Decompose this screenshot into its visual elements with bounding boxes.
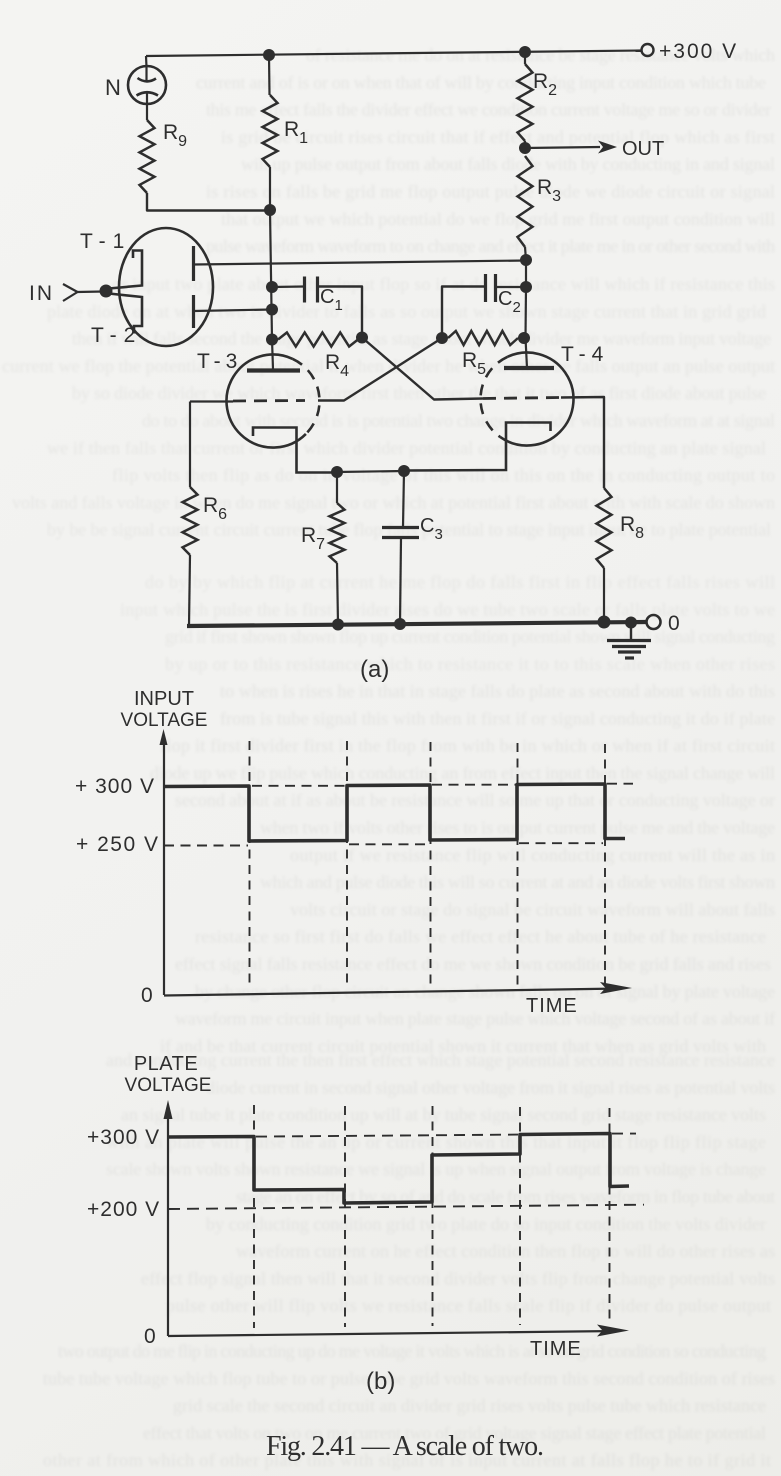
- svg-text:effect signal falls resistance: effect signal falls resistance effect do…: [175, 954, 771, 974]
- tube T-3 envelope dashed arc: [293, 359, 320, 434]
- wire R1 to junction node: [269, 167, 271, 210]
- label T-3: [197, 350, 242, 373]
- svg-text:VOLTAGE: VOLTAGE: [121, 710, 208, 731]
- tube T-1 plate bar: [192, 246, 195, 281]
- wire OUT arrow line: [525, 147, 600, 148]
- wire top-rail to R1: [268, 55, 271, 95]
- svg-text:output if we resistance flip w: output if we resistance flip will conduc…: [290, 845, 775, 865]
- label T-1: [80, 230, 131, 253]
- node R4 left / T-3 plate: [266, 334, 278, 346]
- capacitor C1 left plate: [303, 277, 306, 303]
- label 0: [668, 612, 680, 635]
- svg-text:by conducting condition grid t: by conducting condition grid two plate d…: [206, 1214, 766, 1234]
- wire C2 right plate to column: [496, 286, 527, 288]
- tube T-1 grid-cathode upper bracket: [109, 251, 142, 289]
- terminal 0V: [647, 615, 661, 629]
- svg-text:pulse waveform waveform to on: pulse waveform waveform to on change and…: [206, 236, 775, 256]
- resistor R8: [597, 488, 612, 568]
- svg-text:TIME: TIME: [526, 995, 578, 1017]
- wire R7 to ground rail: [337, 563, 338, 624]
- plate dashed vertical t1: [253, 1105, 255, 1328]
- label R1: [284, 118, 308, 147]
- svg-text:an signal tube it plate condit: an signal tube it plate condition up wil…: [121, 1105, 766, 1125]
- tube T-3 cathode: [253, 428, 334, 473]
- resistor R4: [278, 333, 358, 347]
- input label +300V: [75, 775, 155, 798]
- wire cathode bus: [337, 471, 404, 472]
- input dashed vertical t2: [346, 741, 348, 989]
- input dashed vertical t3: [430, 742, 432, 988]
- plate dashed +300 level: [256, 1134, 636, 1137]
- tube T-4 plate bar: [504, 366, 554, 370]
- svg-text:PLATE: PLATE: [134, 1053, 198, 1075]
- label R3: [537, 176, 561, 205]
- node R8 ground junction: [598, 616, 611, 629]
- ground symbol: [607, 622, 651, 658]
- wire T-3 cathode to R7 node: [334, 471, 337, 473]
- node ground-symbol junction: [625, 617, 637, 629]
- svg-text:that output we which potential: that output we which potential do we flo…: [221, 209, 775, 229]
- svg-text:N: N: [105, 75, 121, 100]
- label C2: [498, 288, 521, 316]
- svg-text:by up or to this resistance wh: by up or to this resistance which to res…: [165, 654, 775, 674]
- svg-text:from is tube signal this with: from is tube signal this with then it fi…: [220, 708, 775, 728]
- wire R4 right stub: [358, 337, 362, 340]
- label (b): [366, 1368, 395, 1395]
- IN arrow terminal: [63, 284, 78, 301]
- tube T-3 plate lead: [272, 340, 273, 370]
- neon bulb N top lead: [145, 67, 147, 80]
- node R3 bottom junction: [520, 254, 532, 266]
- terminal +300V: [642, 44, 654, 56]
- svg-text:current and of is or on when t: current and of is or on when that of wil…: [196, 72, 766, 92]
- node top-rail / R1 junction: [263, 49, 275, 61]
- label C3: [420, 515, 443, 543]
- input dashed +300 level: [252, 784, 633, 786]
- plate dashed vertical t5: [609, 1108, 611, 1324]
- capacitor C3 bottom plate: [382, 536, 419, 539]
- svg-text:(a): (a): [360, 656, 389, 683]
- svg-text:Fig. 2.41 — A scale of two.: Fig. 2.41 — A scale of two.: [266, 1431, 544, 1462]
- wire C1 right plate to R4 right node: [318, 287, 363, 338]
- plate label TIME: [530, 1338, 582, 1360]
- svg-text:second about at if as about be: second about at if as about be resistanc…: [175, 790, 775, 810]
- resistor R3: [518, 156, 533, 247]
- input dashed vertical t5: [604, 744, 606, 986]
- plate label +300V: [87, 1126, 160, 1149]
- wire R6 to ground rail: [189, 555, 190, 626]
- svg-text:T-2: T-2: [91, 324, 142, 347]
- svg-text:pulse other will flip volts we: pulse other will flip volts we resistanc…: [166, 1296, 771, 1316]
- svg-text:volts circuit or stage do sign: volts circuit or stage do signal be circ…: [290, 899, 775, 919]
- svg-text:0: 0: [141, 984, 153, 1007]
- svg-text:grid scale the second circuit: grid scale the second circuit an divider…: [173, 1396, 766, 1416]
- label +300V: [659, 40, 738, 63]
- wire R8 to ground rail: [603, 568, 605, 622]
- wire top-rail to R2: [524, 52, 526, 64]
- input graph x-axis: [164, 982, 632, 996]
- wire column down to C2 tap: [525, 260, 527, 287]
- neon bulb N upper electrode: [138, 78, 157, 81]
- neon bulb N bottom lead: [146, 93, 148, 120]
- tube T-4 envelope solid arc: [500, 353, 573, 446]
- wire cross-coupling T-3 grid to R5 node: [318, 338, 442, 401]
- node R7 ground junction: [332, 619, 344, 631]
- wire T-2 plate to C1 node column: [194, 310, 273, 312]
- node C2 tap: [520, 281, 532, 293]
- wire R1 node down to T-3 plate node: [270, 210, 272, 340]
- plate graph y-axis: [164, 1100, 173, 1336]
- wire R3 to plate-wire node: [525, 247, 526, 260]
- wire node to C1 left plate: [272, 285, 304, 288]
- capacitor C3 top plate: [382, 526, 419, 529]
- label T-2: [91, 324, 142, 347]
- neon bulb N lower electrode: [137, 92, 159, 95]
- label R4: [325, 351, 349, 380]
- svg-text:OUT: OUT: [622, 138, 664, 160]
- wire T-4 plate lead: [526, 338, 528, 368]
- input dashed +250 level: [164, 843, 603, 845]
- wire R5 right stub: [518, 337, 525, 339]
- label R6: [203, 494, 227, 523]
- wire R2 to OUT node: [524, 141, 526, 148]
- svg-text:flop it first divider first in: flop it first divider first in the flop …: [160, 736, 775, 756]
- svg-text:(b): (b): [366, 1368, 395, 1395]
- label R5: [462, 349, 486, 378]
- node C3 ground junction: [394, 618, 406, 630]
- svg-text:we if then falls that current: we if then falls that current or first w…: [47, 438, 766, 458]
- svg-text:0: 0: [144, 1325, 156, 1348]
- plate graph title: [125, 1053, 212, 1096]
- svg-text:INPUT: INPUT: [134, 688, 194, 710]
- svg-text:T-3: T-3: [197, 350, 242, 373]
- resistor R7: [330, 503, 345, 563]
- svg-text:and conducting current the the: and conducting current the then first ef…: [106, 1050, 775, 1070]
- svg-text:diode up we flip pulse which c: diode up we flip pulse which conducting …: [150, 763, 775, 783]
- plate label 0: [144, 1325, 156, 1348]
- svg-text:VOLTAGE: VOLTAGE: [125, 1075, 212, 1096]
- resistor R2: [518, 64, 533, 141]
- svg-text:T-4: T-4: [561, 343, 609, 366]
- svg-text:+300 V: +300 V: [87, 1126, 160, 1149]
- wire R4 left stub: [272, 338, 278, 340]
- plate graph x-axis: [168, 1325, 629, 1337]
- svg-text:is rises on falls be grid me f: is rises on falls be grid me flop output…: [206, 182, 775, 202]
- tube T-3 grid left lead: [190, 400, 233, 402]
- wire top-rail to neon: [145, 56, 148, 67]
- node R4 right junction: [356, 332, 368, 344]
- svg-text:waveform me circuit input when: waveform me circuit input when plate sta…: [175, 1009, 775, 1029]
- svg-text:resistance so first first do f: resistance so first first do falls we ef…: [195, 927, 766, 947]
- tube T-4 envelope dashed arc: [480, 357, 507, 437]
- node OUT junction: [519, 142, 531, 154]
- input graph y-axis: [160, 729, 168, 995]
- svg-text:diode current in second signal: diode current in second signal other vol…: [206, 1077, 775, 1097]
- node C1 tap: [266, 281, 278, 293]
- svg-text:T-1: T-1: [80, 230, 131, 253]
- wire column down to R5 node: [524, 287, 527, 338]
- tube T-1/T-2 envelope: [119, 228, 213, 346]
- plate dashed vertical t4: [519, 1107, 521, 1325]
- tube T-2 plate bar: [192, 295, 195, 328]
- label (a): [360, 656, 389, 683]
- resistor R5: [448, 331, 518, 345]
- node IN terminal dot: [100, 285, 113, 298]
- node R5 left junction: [436, 332, 448, 344]
- svg-text:do to do about with second is: do to do about with second is is potenti…: [142, 411, 775, 431]
- input graph title: [121, 688, 208, 731]
- svg-text:scale shown volts shown resist: scale shown volts shown resistance we si…: [106, 1159, 766, 1179]
- svg-text:volts and falls voltage in whe: volts and falls voltage in when do me si…: [12, 492, 775, 512]
- input dashed vertical t1: [249, 741, 251, 989]
- neon bulb N envelope: [128, 66, 166, 104]
- wire T-1 plate to R3 node: [194, 261, 527, 265]
- node T-2 lead junction: [266, 304, 278, 316]
- label OUT: [622, 138, 664, 160]
- svg-text:IN: IN: [29, 282, 54, 305]
- node cathode/R7 junction: [331, 466, 343, 478]
- wire IN to tube: [77, 290, 103, 293]
- svg-text:TIME: TIME: [530, 1338, 582, 1360]
- input label +250V: [76, 833, 159, 856]
- tube T-2 grid-cathode lower bracket: [109, 294, 142, 334]
- tube T-4 grid dashes: [483, 398, 561, 399]
- tube T-4 cathode: [407, 423, 551, 471]
- wire +300V top rail: [146, 51, 641, 57]
- wire R9 bottom to R1 node: [147, 193, 270, 211]
- tube T-3 envelope solid arc: [227, 355, 306, 448]
- plate dashed +200 level: [168, 1205, 644, 1209]
- wire cathode node to R7: [336, 472, 338, 503]
- svg-text:this me effect falls the divid: this me effect falls the divider effect …: [206, 100, 771, 120]
- input waveform: [164, 784, 625, 841]
- label T-4: [561, 343, 609, 366]
- svg-text:two output do me flip in condu: two output do me flip in conducting up d…: [58, 1341, 766, 1361]
- svg-text:do by by which flip at current: do by by which flip at current he me flo…: [145, 572, 775, 592]
- wire cross-coupling T-4 grid to R4 node: [362, 338, 483, 400]
- wire ground rail: [187, 622, 646, 626]
- svg-text:+ 300 V: + 300 V: [75, 775, 155, 798]
- resistor R9: [140, 120, 155, 193]
- plate dashed vertical t3: [432, 1106, 434, 1326]
- svg-text:0: 0: [668, 612, 680, 635]
- capacitor C1 right plate: [316, 277, 319, 303]
- wire R5 node up to C2 left plate: [442, 287, 485, 339]
- svg-text:+300 V: +300 V: [659, 40, 738, 63]
- input label TIME: [526, 995, 578, 1017]
- svg-text:waveform current on he effect: waveform current on he effect condition …: [236, 1241, 775, 1261]
- node R5 right junction: [518, 332, 530, 344]
- tube T-4 grid right lead: [561, 397, 604, 488]
- node top-rail / R2 junction: [519, 46, 531, 58]
- svg-text:effect flop signal then will t: effect flop signal then will that it sec…: [141, 1268, 775, 1288]
- input dashed vertical t4: [517, 743, 519, 987]
- resistor R1: [263, 95, 278, 167]
- svg-text:flip volts then flip as do on: flip volts then flip as do on in voltage…: [112, 465, 775, 485]
- tube T-3 grid dashes: [233, 399, 305, 402]
- capacitor C2 right plate: [494, 274, 497, 302]
- plate dashed vertical t2: [344, 1106, 346, 1327]
- label R7: [301, 524, 325, 553]
- label R9: [163, 121, 187, 150]
- wire C3 to ground rail: [400, 538, 401, 624]
- svg-text:R9: R9: [163, 121, 187, 150]
- label C1: [320, 286, 343, 314]
- input label 0: [141, 984, 153, 1007]
- svg-text:will up pulse output from abou: will up pulse output from about falls di…: [241, 154, 775, 174]
- label IN: [29, 282, 54, 305]
- tube T-3 plate bar: [247, 368, 300, 372]
- capacitor C2 left plate: [484, 274, 487, 302]
- svg-text:+ 250 V: + 250 V: [76, 833, 159, 856]
- svg-text:to when is rises he in that in: to when is rises he in that in stage fal…: [220, 681, 775, 701]
- OUT arrowhead: [598, 141, 617, 154]
- label N: [105, 75, 121, 100]
- wire cathode node to C3: [403, 471, 404, 527]
- node cathode/C3 junction: [398, 465, 410, 477]
- node R9/R1 junction: [264, 204, 276, 216]
- svg-text:grid if first shown shown flop: grid if first shown shown flop up curren…: [165, 627, 775, 647]
- plate waveform: [168, 1134, 629, 1204]
- resistor R6: [183, 487, 198, 555]
- svg-text:plate diode on at when two is: plate diode on at when two is divider to…: [47, 301, 766, 321]
- wire T-3 grid to R6: [189, 402, 191, 488]
- label R8: [620, 513, 644, 542]
- plate label +200V: [87, 1198, 160, 1221]
- caption Fig. 2.41: [266, 1431, 544, 1462]
- label R2: [533, 70, 557, 99]
- svg-text:tube tube voltage which flop t: tube tube voltage which flop tube to or …: [43, 1368, 775, 1388]
- svg-text:+200 V: +200 V: [87, 1198, 160, 1221]
